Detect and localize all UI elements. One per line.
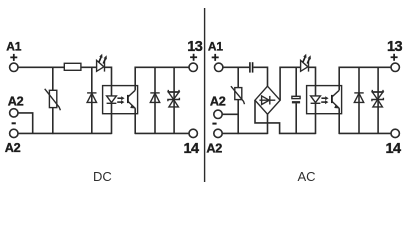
- wire LED to optocoupler input (AC): [309, 67, 316, 96]
- plus polarity mark at A1 (DC): [10, 54, 17, 61]
- wire filter capacitor branch bottom (AC): [295, 103, 297, 133]
- wire emitter to output bottom rail (AC): [338, 108, 340, 134]
- TVS suppressor V8 (AC output): [372, 67, 384, 133]
- terminal A2 lower (AC): [214, 129, 222, 137]
- wire A1 to capacitor (AC): [223, 66, 249, 68]
- svg-text:A1: A1: [6, 40, 21, 54]
- svg-text:DC: DC: [93, 169, 112, 184]
- wire bridge DC plus to rail (AC): [280, 67, 301, 100]
- wire varistor to bottom rail (AC): [237, 100, 239, 135]
- wire input bottom rail (DC): [18, 132, 111, 134]
- wire varistor to bottom rail (DC): [52, 108, 54, 135]
- optocoupler U2 phototransistor Q2 (AC): [332, 90, 340, 108]
- terminal 13 (DC): [189, 63, 197, 71]
- minus polarity mark (AC): [212, 123, 216, 125]
- TVS suppressor V4 (DC output): [168, 67, 180, 133]
- capacitor C1 series (AC): [250, 62, 253, 72]
- terminal A2 lower (DC): [10, 129, 18, 137]
- bridge rectifier V5 (AC): [255, 86, 280, 114]
- optocoupler U1 box (DC): [103, 86, 138, 114]
- wire A2 upper joins varistor branch (AC): [222, 113, 238, 115]
- plus polarity mark at A1 (AC): [212, 54, 219, 61]
- divider line between DC and AC halves: [204, 8, 206, 182]
- capacitor C2 polarized filter (AC): [292, 96, 300, 103]
- resistor R1 (DC series): [64, 63, 81, 70]
- wire emitter to output bottom rail (DC): [134, 108, 136, 134]
- varistor R3 (AC input protection): [231, 86, 245, 104]
- LED indicator V2 (DC): [97, 54, 107, 72]
- wire collector to output rail (DC): [135, 67, 188, 90]
- svg-text:A1: A1: [208, 40, 223, 54]
- svg-text:13: 13: [387, 39, 402, 55]
- wire opto LED cathode down (DC): [111, 103, 113, 134]
- wire varistor branch (DC): [52, 67, 54, 90]
- minus polarity mark (DC): [12, 122, 16, 124]
- terminal 14 (AC): [391, 129, 399, 137]
- varistor R2 (DC input protection): [45, 89, 61, 111]
- optocoupler U1 internal LED (DC): [107, 96, 117, 103]
- terminal 14 (DC): [189, 129, 197, 137]
- wire resistor to LED (DC): [81, 66, 97, 68]
- optocoupler U2 box (AC): [307, 86, 342, 114]
- wire varistor branch (AC): [237, 67, 239, 87]
- svg-text:AC: AC: [298, 169, 316, 184]
- wire bridge DC minus route (AC): [255, 100, 316, 133]
- diode V1 (DC free-wheeling): [87, 67, 96, 133]
- wire input bottom rail (AC): [222, 132, 267, 134]
- terminal A2 upper (AC): [214, 110, 222, 118]
- svg-text:A2: A2: [8, 95, 24, 109]
- svg-text:A2: A2: [206, 141, 222, 155]
- diode V3 output clamp (DC): [150, 67, 159, 133]
- wire A1 to resistor: [18, 66, 64, 68]
- wire opto LED cathode down (AC): [315, 103, 317, 134]
- terminal 13 (AC): [391, 63, 399, 71]
- wire LED to optocoupler input (DC): [105, 67, 112, 96]
- terminal A1 (AC): [215, 63, 223, 71]
- wire capacitor to bridge (AC): [253, 67, 267, 86]
- svg-text:A2: A2: [5, 141, 21, 155]
- LED indicator V6 (AC): [301, 54, 311, 72]
- terminal A2 upper (DC): [10, 109, 18, 117]
- plus polarity mark at 13 (DC): [190, 54, 197, 61]
- svg-text:13: 13: [187, 39, 202, 55]
- optocoupler U1 phototransistor Q1 (DC): [128, 90, 136, 108]
- svg-text:14: 14: [184, 141, 199, 157]
- optocoupler U2 light arrows (AC): [321, 96, 328, 104]
- wire A2 upper to bottom rail (DC): [18, 113, 33, 133]
- terminal A1 (DC): [10, 63, 18, 71]
- plus polarity mark at 13 (AC): [391, 54, 398, 61]
- wire output bottom rail (DC): [135, 132, 188, 134]
- svg-text:14: 14: [386, 141, 401, 157]
- wire output bottom rail (AC): [339, 132, 391, 134]
- svg-text:A2: A2: [210, 95, 226, 109]
- optocoupler U2 internal LED (AC): [311, 96, 321, 103]
- wire bridge bottom to input rail (AC): [267, 114, 269, 134]
- wire collector to output rail (AC): [339, 67, 391, 90]
- diode V7 output clamp (AC): [354, 67, 363, 133]
- optocoupler U1 light arrows (DC): [117, 96, 124, 104]
- wire filter capacitor branch top (AC): [295, 67, 297, 96]
